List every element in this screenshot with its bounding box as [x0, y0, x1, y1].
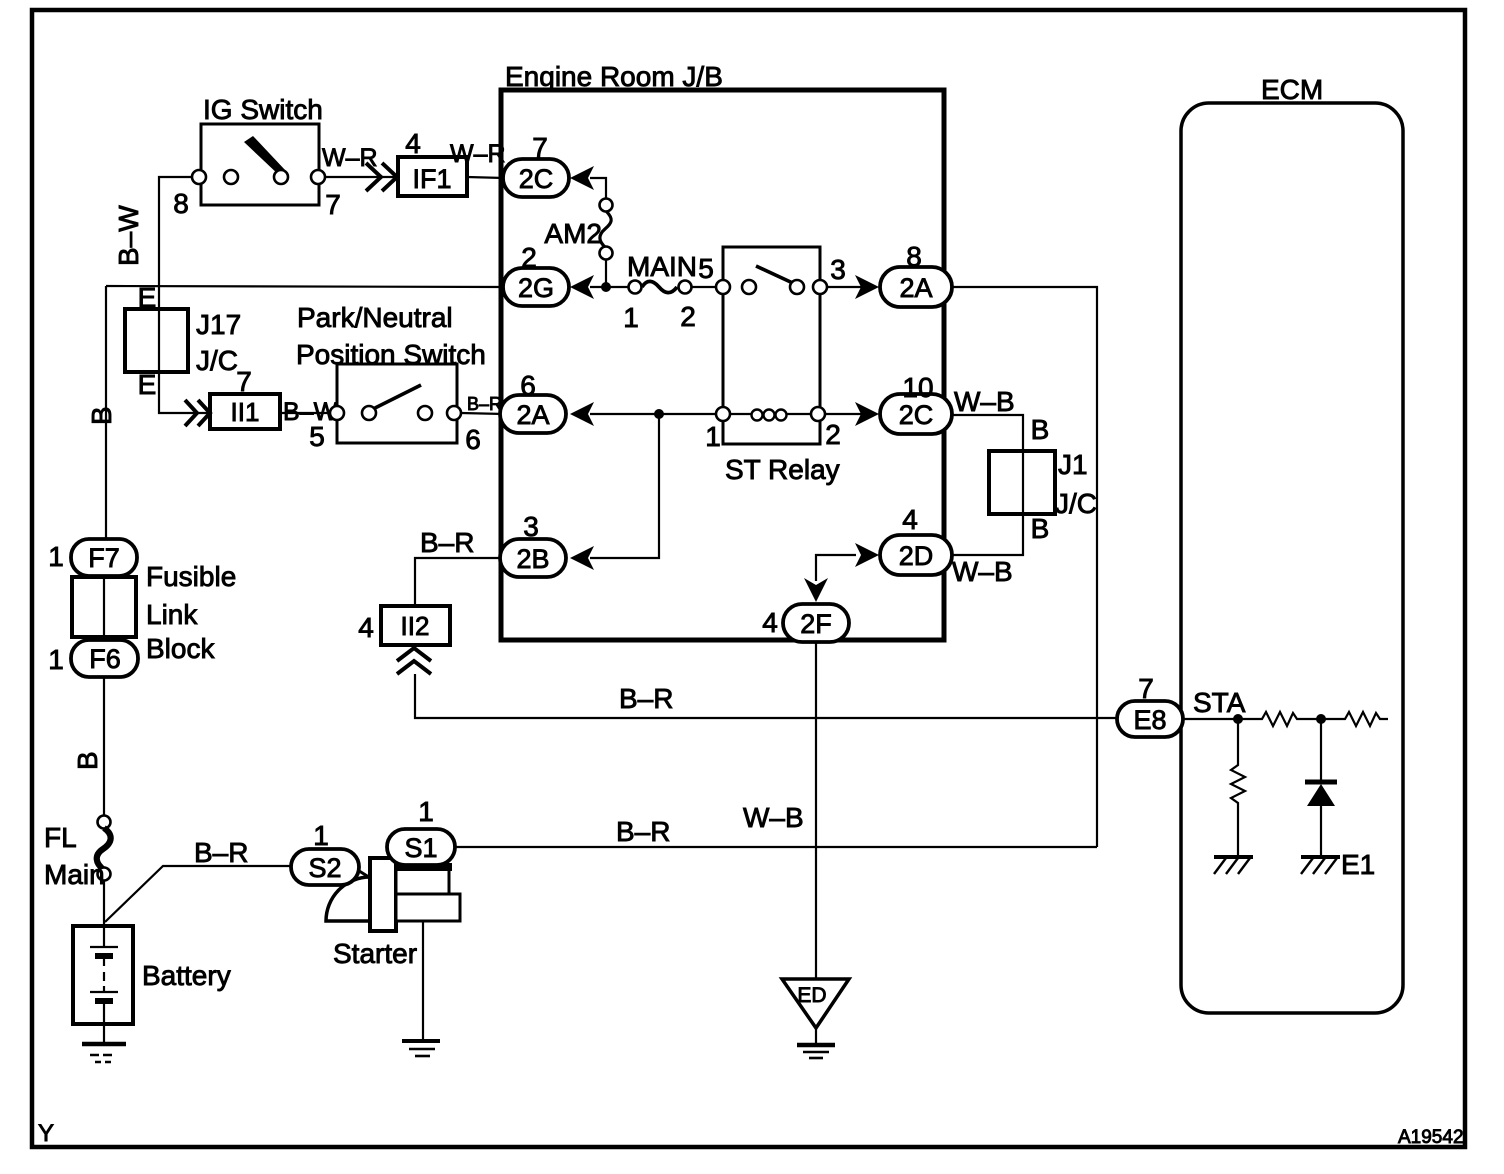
wire IF1 to 2C (W-R): [467, 177, 504, 178]
wire inside J/B: to 2D arrow and down to 2F arrow: [816, 555, 856, 581]
svg-text:3: 3: [830, 254, 846, 285]
resistor R3 (vertical pulldown) + wire: [1231, 719, 1245, 857]
wire II1 to PNP switch pin5 (B-W): [280, 412, 337, 414]
relay ST Relay: [705, 247, 846, 485]
connector 2A pin 8: [855, 241, 952, 307]
wire ST relay coil pin2 to 2C(10) arrow: [825, 413, 862, 415]
ground triangle ED: [782, 979, 849, 1058]
svg-text:2: 2: [680, 301, 696, 332]
connector 2A pin 6: [500, 370, 594, 433]
wire ST relay pin3 to 2A arrow: [826, 286, 862, 288]
junction connector J1 J/C: [989, 414, 1097, 544]
svg-text:S2: S2: [308, 853, 341, 883]
wire starter body to ground: [422, 921, 424, 1041]
svg-text:FL: FL: [44, 822, 77, 853]
svg-text:AM2: AM2: [544, 218, 602, 249]
svg-text:7: 7: [1138, 673, 1154, 704]
svg-text:Main: Main: [44, 859, 105, 890]
svg-text:Battery: Battery: [142, 960, 231, 991]
connector II2 pin 4: [358, 606, 450, 674]
svg-text:B: B: [86, 406, 117, 425]
svg-text:Engine Room J/B: Engine Room J/B: [505, 61, 723, 92]
svg-text:W–B: W–B: [952, 556, 1013, 587]
svg-text:4: 4: [405, 128, 421, 159]
wire J1 to 2D (W-B): [951, 512, 1023, 555]
wire starter S1 to 2A(8) drop (B-R): [454, 846, 1097, 848]
svg-text:J/C: J/C: [1055, 488, 1097, 519]
svg-text:B–R: B–R: [619, 683, 673, 714]
fusible link block: connector F6 pin 1: [48, 640, 138, 677]
svg-text:A19542: A19542: [1398, 1127, 1464, 1148]
svg-text:II2: II2: [401, 611, 430, 641]
svg-text:IG Switch: IG Switch: [203, 94, 323, 125]
svg-text:7: 7: [532, 132, 548, 163]
svg-text:1: 1: [48, 541, 64, 572]
wire E8 into ECM STA node: [1183, 718, 1238, 720]
svg-text:B–W: B–W: [113, 205, 144, 266]
connector S2 pin 1: [291, 820, 359, 885]
fuse MAIN pins 1,2: [623, 251, 714, 333]
connector 2D pin 4: [855, 504, 952, 575]
svg-text:2A: 2A: [516, 400, 549, 430]
svg-text:E8: E8: [1133, 705, 1166, 735]
svg-text:B: B: [1031, 414, 1050, 445]
svg-text:F7: F7: [88, 543, 120, 573]
wire IG switch pin7 to IF1 (W-R): [318, 176, 398, 178]
battery: [73, 926, 231, 1024]
svg-text:ED: ED: [797, 984, 826, 1007]
svg-text:7: 7: [325, 189, 341, 220]
svg-text:4: 4: [358, 612, 374, 643]
connector E8 pin 7: [1117, 673, 1183, 737]
wire 2C(10) to J1 (W-B): [951, 415, 1023, 453]
svg-text:J/C: J/C: [196, 345, 238, 376]
svg-text:3: 3: [523, 511, 539, 542]
ground (STA pulldown, chassis style): [1214, 857, 1253, 874]
svg-text:5: 5: [698, 253, 714, 284]
wire B feed vertical down to F7: [105, 286, 107, 541]
svg-text:B–R: B–R: [420, 527, 474, 558]
svg-text:S1: S1: [404, 833, 437, 863]
wire AM2 fuse to junction on 2G wire: [605, 258, 607, 287]
junction connector J17 J/C: [125, 282, 241, 400]
svg-text:ECM: ECM: [1261, 74, 1323, 105]
svg-text:1: 1: [313, 820, 329, 851]
resistor R2 (horizontal, to ECM internals): [1321, 712, 1388, 726]
starter motor body: [326, 858, 460, 969]
ECM: [1181, 74, 1403, 1013]
ground (battery): [82, 1044, 126, 1062]
svg-text:2G: 2G: [518, 273, 554, 303]
svg-text:Position Switch: Position Switch: [296, 339, 486, 370]
svg-text:8: 8: [173, 188, 189, 219]
wire 2G arrow to MAIN fuse: [590, 286, 630, 288]
svg-text:7: 7: [236, 366, 252, 397]
fusible link block body: [72, 561, 236, 664]
svg-text:B: B: [72, 751, 103, 770]
svg-text:ST Relay: ST Relay: [725, 454, 840, 485]
svg-text:Starter: Starter: [333, 938, 417, 969]
wire FL Main to battery: [103, 879, 105, 926]
wire IG switch pin8 to J17 (B-W): [159, 177, 199, 309]
switch Park/Neutral Position Switch: [296, 302, 486, 455]
svg-text:E: E: [138, 369, 157, 400]
svg-text:10: 10: [902, 372, 933, 403]
svg-text:Y: Y: [38, 1120, 54, 1147]
svg-text:1: 1: [418, 796, 434, 827]
fusible link block: connector F7 pin 1: [48, 539, 137, 576]
svg-text:2A: 2A: [899, 273, 932, 303]
wire battery negative to ground: [103, 1024, 105, 1044]
diode D1 (clamp to ground): [1305, 719, 1337, 857]
ground (starter): [402, 1041, 440, 1056]
svg-text:B–R: B–R: [194, 837, 248, 868]
svg-text:5: 5: [309, 421, 325, 452]
svg-text:II1: II1: [231, 397, 260, 427]
svg-text:Block: Block: [146, 633, 215, 664]
svg-text:4: 4: [762, 607, 778, 638]
wire MAIN fuse to ST relay contact pin5: [690, 286, 725, 288]
fusible link FL Main: [44, 816, 111, 891]
connector IF1 pin 4: [366, 128, 467, 196]
svg-text:8: 8: [906, 241, 922, 272]
junction dot STA node: [1233, 714, 1243, 724]
svg-text:Park/Neutral: Park/Neutral: [297, 302, 453, 333]
junction dot diode node: [1316, 714, 1326, 724]
svg-text:IF1: IF1: [412, 164, 451, 194]
wire 2F down through J/B edge to ED triangle (W-B): [815, 642, 817, 979]
svg-text:W–B: W–B: [954, 386, 1015, 417]
svg-text:B: B: [1031, 513, 1050, 544]
svg-text:B–R: B–R: [616, 816, 670, 847]
wire 2C arrow to AM2 fuse: [590, 178, 606, 201]
svg-text:B–R: B–R: [467, 394, 502, 414]
svg-text:2: 2: [825, 419, 841, 450]
svg-text:1: 1: [48, 644, 64, 675]
fuse AM2: [544, 199, 612, 260]
svg-text:2C: 2C: [899, 400, 934, 430]
svg-text:6: 6: [520, 370, 536, 401]
svg-text:2B: 2B: [516, 544, 549, 574]
svg-text:E: E: [138, 282, 157, 313]
wire PNP switch pin6 to 2A(6) (B-R): [461, 413, 504, 414]
svg-text:J17: J17: [196, 309, 241, 340]
wire II2 chevrons down and right to E8 (B-R): [415, 674, 1118, 718]
connector II1 pin 7: [185, 366, 280, 429]
svg-text:6: 6: [465, 424, 481, 455]
svg-text:F6: F6: [89, 644, 121, 674]
switch IG Switch: [173, 94, 341, 220]
junction block Engine Room J/B: [501, 61, 944, 640]
svg-text:1: 1: [705, 421, 721, 452]
svg-text:1: 1: [623, 302, 639, 333]
svg-text:W–B: W–B: [743, 802, 804, 833]
connector 2C pin 10: [855, 372, 952, 434]
wire battery positive diagonal to S2 (B-R): [105, 866, 292, 922]
ground E1 (chassis style): [1301, 849, 1375, 880]
svg-text:2D: 2D: [899, 541, 934, 571]
connector 2B pin 3: [500, 511, 594, 577]
connector 2G pin 2: [503, 242, 594, 306]
svg-text:STA: STA: [1193, 687, 1246, 718]
svg-text:2F: 2F: [800, 609, 832, 639]
svg-text:E1: E1: [1341, 849, 1375, 880]
svg-text:Link: Link: [146, 599, 198, 630]
wire 2B arrow up to junction on coil wire: [590, 414, 659, 558]
wire B feed: J17 branch to 2G (B): [106, 286, 504, 287]
connector S1 pin 1: [387, 796, 455, 865]
wire J17 lower E to II1 chevrons: [159, 372, 212, 413]
junction dot AM2/2G node: [601, 282, 611, 292]
connector 2F pin 4: [762, 578, 849, 642]
svg-text:J1: J1: [1058, 449, 1088, 480]
junction dot 2B riser on coil wire: [654, 409, 664, 419]
connector 2C pin 7: [503, 132, 594, 197]
wire 2A(8) right, down to starter S1 wire (B-R): [951, 287, 1097, 847]
svg-text:4: 4: [902, 504, 918, 535]
wire 2A(6) arrow to ST relay coil pin1: [590, 413, 723, 415]
wire F6 down to FL Main: [103, 676, 105, 817]
svg-text:MAIN: MAIN: [627, 251, 697, 282]
svg-text:Fusible: Fusible: [146, 561, 236, 592]
svg-text:2C: 2C: [519, 164, 554, 194]
resistor R1 (horizontal, STA line): [1238, 712, 1321, 726]
wire 2B to II2 (B-R): [415, 558, 500, 606]
svg-text:W–R: W–R: [450, 140, 506, 168]
svg-text:2: 2: [521, 242, 537, 273]
